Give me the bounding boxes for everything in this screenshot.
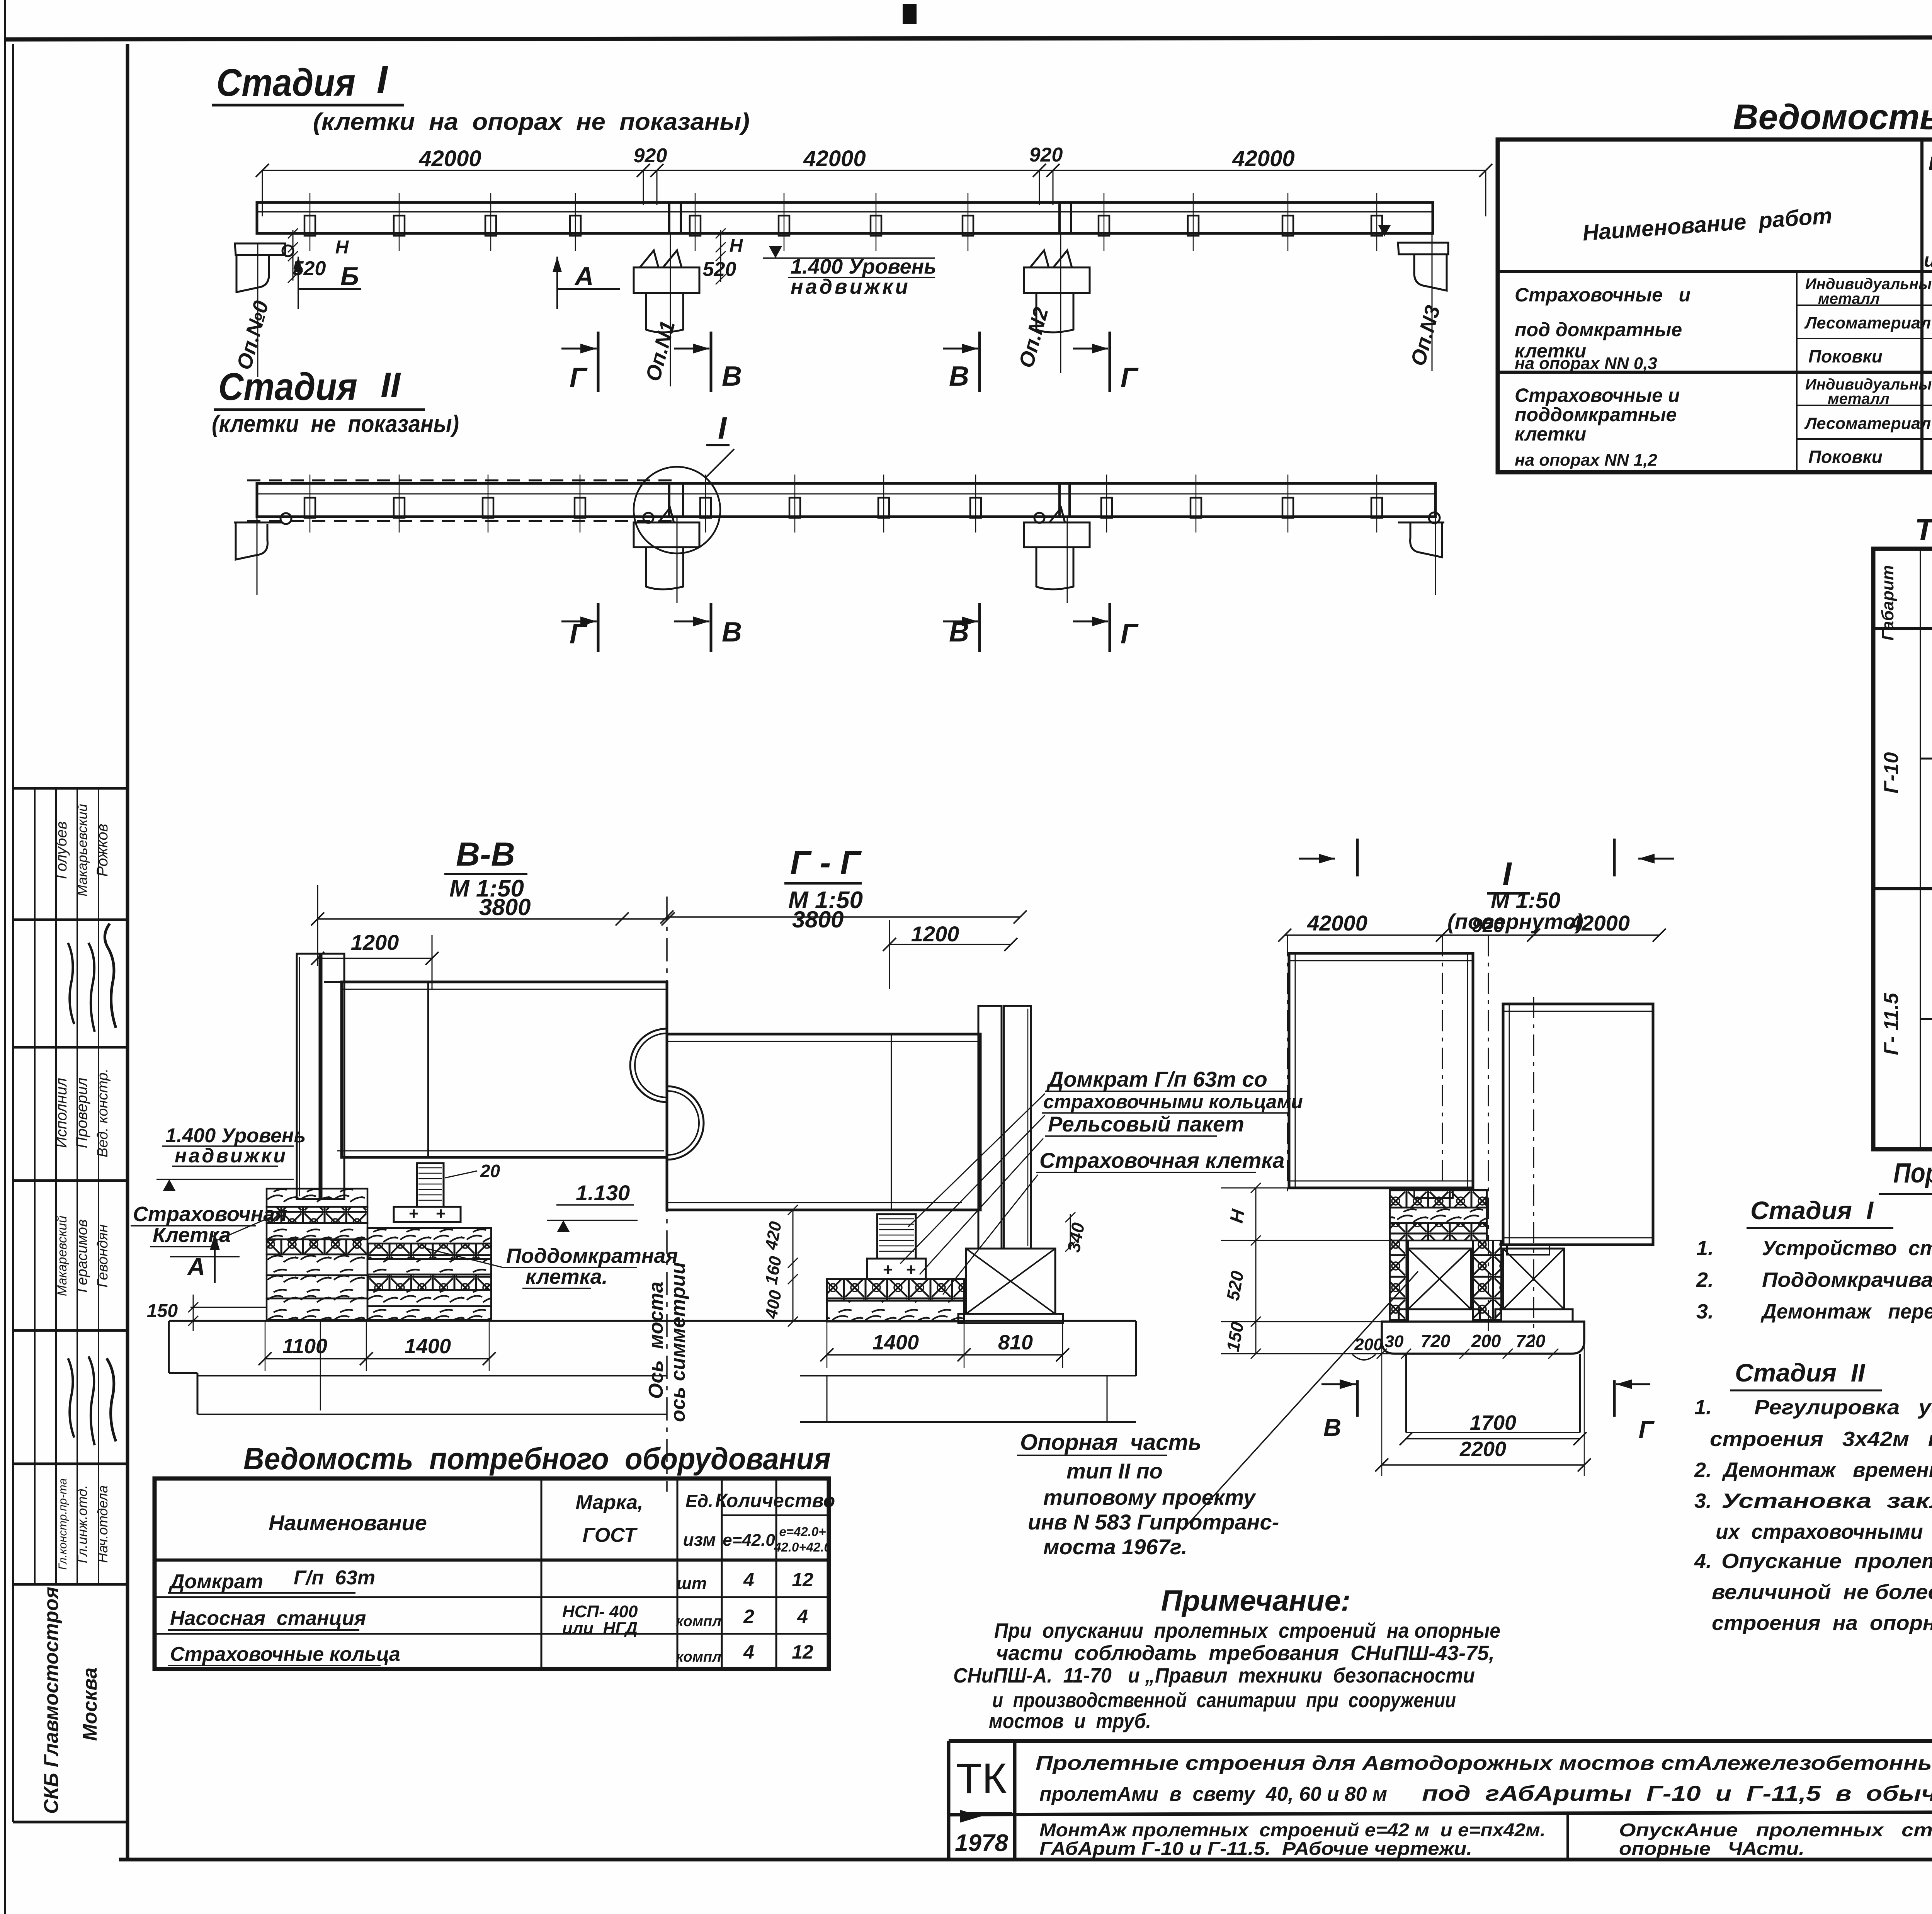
svg-text:строения 3х42м поддомкрачи: строения 3х42м поддомкрачиванием нА опор…: [1710, 1427, 1932, 1451]
svg-text:42000: 42000: [1569, 911, 1630, 935]
svg-text:Ведомость потребного оборудо: Ведомость потребного оборудования: [243, 1441, 831, 1476]
svg-text:42000: 42000: [1307, 911, 1367, 935]
svg-text:Ось моста: Ось моста: [645, 1282, 667, 1399]
svg-text:Таблица переменных Величин.: Таблица переменных Величин.: [1915, 512, 1932, 547]
svg-text:строения на опорные части.: строения на опорные части.: [1712, 1611, 1932, 1635]
svg-text:Б: Б: [340, 262, 359, 291]
svg-text:Г: Г: [1638, 1416, 1655, 1444]
svg-text:Марка,: Марка,: [576, 1491, 643, 1514]
svg-text:3800: 3800: [479, 894, 531, 920]
svg-text:920: 920: [1029, 144, 1063, 166]
section B-B dims: [318, 918, 668, 920]
svg-text:на опорах NN 1,2: на опорах NN 1,2: [1515, 451, 1657, 470]
svg-text:Голубев: Голубев: [53, 821, 70, 879]
svg-text:и производственной санитарии: и производственной санитарии при сооруже…: [992, 1689, 1456, 1712]
svg-text:Страховочные кольца: Страховочные кольца: [170, 1643, 400, 1666]
svg-text:Лесоматериал: Лесоматериал: [1804, 314, 1931, 332]
Stage I dimension line: [262, 170, 1486, 171]
svg-text:А: А: [574, 262, 594, 291]
svg-text:Ед,: Ед,: [1929, 153, 1932, 174]
svg-text:Гевондян: Гевондян: [95, 1224, 111, 1287]
svg-text:150: 150: [147, 1301, 178, 1321]
svg-text:(повернуто): (повернуто): [1447, 909, 1583, 934]
svg-text:Г/п 63т: Г/п 63т: [294, 1567, 375, 1589]
Stage II girder: [257, 483, 1435, 517]
section G-G pier columns: [978, 1006, 1002, 1249]
svg-text:страховочными кольцами: страховочными кольцами: [1043, 1091, 1303, 1113]
svg-text:II: II: [381, 366, 401, 405]
svg-text:шт: шт: [677, 1574, 707, 1593]
svg-text:ось симметрии: ось симметрии: [667, 1262, 689, 1422]
Stage I girder: [257, 202, 1433, 233]
svg-text:Устройство страховочных. клет: Устройство страховочных. клеток и клеток…: [1762, 1237, 1932, 1260]
svg-text:надвижки: надвижки: [791, 275, 910, 298]
svg-text:Опорная часть: Опорная часть: [1020, 1430, 1201, 1455]
svg-text:Насосная станция: Насосная станция: [170, 1607, 366, 1630]
svg-text:Поддомкратная: Поддомкратная: [506, 1244, 678, 1267]
svg-text:Страховочные и: Страховочные и: [1515, 284, 1690, 306]
svg-text:Домкрат: Домкрат: [168, 1570, 263, 1593]
svg-text:Лесоматериал: Лесоматериал: [1804, 414, 1931, 433]
svg-text:Количество: Количество: [715, 1490, 835, 1511]
svg-text:Опускание пролетного строени: Опускание пролетного строения e=42 м зал…: [1721, 1550, 1932, 1573]
svg-text:20: 20: [480, 1161, 500, 1181]
svg-text:Г-10: Г-10: [1880, 752, 1903, 793]
svg-text:e=42.0+: e=42.0+: [779, 1524, 826, 1539]
svg-text:Нач.отдела: Нач.отдела: [95, 1485, 111, 1563]
svg-text:величиной не более 15см до: величиной не более 15см до установки про…: [1712, 1581, 1932, 1604]
svg-text:Г- 11.5: Г- 11.5: [1880, 992, 1903, 1055]
svg-text:Пролетные строения для Автодор: Пролетные строения для Автодорожных мост…: [1036, 1752, 1932, 1774]
axis lines: [666, 897, 668, 1492]
svg-text:1200: 1200: [911, 922, 959, 946]
section G-G footing: [1135, 1321, 1137, 1376]
svg-text:+: +: [883, 1260, 893, 1279]
svg-text:ГАбАрит Г-10 и Г-11.5. РАбочи: ГАбАрит Г-10 и Г-11.5. РАбочие чертежи.: [1039, 1839, 1472, 1859]
manhole semicircle right: [667, 1086, 704, 1160]
svg-text:Герасимов: Герасимов: [74, 1219, 90, 1293]
svg-text:920: 920: [634, 145, 667, 167]
manhole semicircle left: [630, 1029, 667, 1102]
svg-text:Поковки: Поковки: [1808, 346, 1883, 366]
svg-text:2: 2: [743, 1606, 754, 1627]
svg-text:2.: 2.: [1694, 1458, 1712, 1482]
svg-text:типовому проекту: типовому проекту: [1043, 1485, 1257, 1509]
svg-text:Москва: Москва: [79, 1667, 101, 1741]
section I bottom dims: [1406, 1438, 1580, 1439]
svg-text:Г: Г: [1121, 362, 1139, 393]
section I bottom marks: [1356, 1380, 1359, 1417]
svg-text:Стадия II: Стадия II: [1735, 1358, 1866, 1387]
svg-text:Вед. констр.: Вед. констр.: [95, 1068, 111, 1157]
svg-text:Страховочная: Страховочная: [133, 1203, 287, 1226]
svg-text:Ведомость объемов работ.: Ведомость объемов работ.: [1733, 97, 1932, 137]
svg-text:Г: Г: [1121, 619, 1139, 650]
svg-text:720: 720: [1516, 1331, 1546, 1351]
svg-text:Исполнил: Исполнил: [53, 1078, 70, 1148]
section I dims: [1285, 934, 1659, 936]
svg-text:Стадия: Стадия: [216, 61, 355, 104]
svg-text:мостов и труб.: мостов и труб.: [989, 1710, 1151, 1733]
svg-text:3.: 3.: [1694, 1489, 1712, 1512]
svg-text:3800: 3800: [792, 907, 844, 932]
section B-B jack: [394, 1207, 461, 1222]
table 1 grid: [1498, 140, 1932, 472]
svg-text:В: В: [949, 617, 969, 648]
svg-text:920: 920: [1472, 915, 1504, 936]
svg-text:В: В: [722, 617, 742, 648]
svg-text:Поковки: Поковки: [1808, 447, 1883, 467]
svg-text:1100: 1100: [282, 1335, 327, 1358]
svg-text:1400: 1400: [405, 1335, 451, 1358]
svg-text:1400: 1400: [872, 1331, 919, 1354]
svg-text:изм.: изм.: [1924, 249, 1932, 271]
Stage I section marks: [597, 332, 600, 392]
section G-G girder box: [667, 1034, 980, 1210]
svg-text:Рожков: Рожков: [94, 823, 111, 876]
section G-G bottom dims: [827, 1354, 1063, 1356]
svg-text:СКБ Главмостостроя: СКБ Главмостостроя: [40, 1587, 63, 1814]
svg-text:При опускании пролетных стр: При опускании пролетных строений на опор…: [994, 1619, 1500, 1642]
svg-text:НСП- 400: НСП- 400: [562, 1602, 638, 1621]
svg-text:на опорах NN 0,3: на опорах NN 0,3: [1515, 354, 1657, 373]
svg-text:тип II по: тип II по: [1066, 1459, 1163, 1483]
svg-text:1.130: 1.130: [576, 1181, 630, 1205]
svg-text:В: В: [722, 361, 742, 392]
svg-text:СНиПШ-А. 11-70 и „Правил т: СНиПШ-А. 11-70 и „Правил техники безопас…: [953, 1664, 1475, 1687]
svg-text:(клетки не показаны): (клетки не показаны): [212, 411, 459, 437]
svg-text:под домкратные: под домкратные: [1515, 319, 1682, 340]
svg-text:1.400 Уровень: 1.400 Уровень: [165, 1125, 306, 1147]
svg-text:Н: Н: [730, 236, 743, 256]
svg-text:ОпускАние пролетных строен: ОпускАние пролетных строений нА: [1619, 1820, 1932, 1841]
detail circle I: [634, 467, 720, 553]
svg-text:1700: 1700: [1470, 1411, 1516, 1434]
svg-text:под гАбАриты Г-10 и Г-11,5: под гАбАриты Г-10 и Г-11,5 в обычном и с…: [1422, 1781, 1932, 1805]
svg-text:1.400 Уровень: 1.400 Уровень: [791, 255, 936, 278]
svg-text:Демонтаж временных стыков.: Демонтаж временных стыков.: [1722, 1458, 1932, 1482]
section B-B footing: [169, 1320, 1136, 1322]
section G-G crib under jack: [827, 1279, 964, 1301]
svg-text:Поддомкрачивание пролетного: Поддомкрачивание пролетного строения 3 х…: [1762, 1268, 1932, 1291]
svg-text:Ед.: Ед.: [685, 1491, 713, 1511]
svg-text:Домкрат Г/п 63т со: Домкрат Г/п 63т со: [1046, 1067, 1267, 1091]
svg-text:Порядок производства РАбот: Порядок производства РАбот: [1893, 1158, 1932, 1189]
svg-text:их страховочными клетками.: их страховочными клетками.: [1716, 1520, 1932, 1543]
section I girders: [1289, 953, 1473, 1188]
svg-text:металл: металл: [1828, 390, 1889, 407]
svg-text:изм: изм: [683, 1529, 716, 1550]
svg-text:опорные ЧАсти.: опорные ЧАсти.: [1619, 1839, 1804, 1859]
section I H/520/150 dims: [1255, 1188, 1257, 1240]
svg-text:3.: 3.: [1696, 1300, 1714, 1323]
svg-text:30: 30: [1385, 1332, 1404, 1351]
svg-text:В-В: В-В: [456, 836, 515, 873]
svg-text:1978: 1978: [955, 1830, 1008, 1856]
Stage I piers: [235, 243, 285, 255]
svg-text:2200: 2200: [1459, 1438, 1506, 1461]
svg-text:12: 12: [792, 1569, 813, 1591]
section G-G 340 dim: [1070, 1214, 1071, 1248]
Stage II piers: [234, 522, 282, 560]
svg-text:4.: 4.: [1694, 1550, 1712, 1573]
section I centerlines: [1287, 935, 1288, 1194]
section I crib: [1390, 1190, 1487, 1208]
svg-text:части соблюдать требования: части соблюдать требования СНиПШ-43-75,: [996, 1642, 1495, 1665]
Stage II section marks: [597, 603, 600, 652]
svg-text:42000: 42000: [1232, 146, 1294, 171]
svg-text:Страховочная клетка: Страховочная клетка: [1039, 1148, 1285, 1172]
svg-text:Демонтаж перекаточных устр: Демонтаж перекаточных устройств.: [1760, 1300, 1932, 1323]
svg-text:4: 4: [797, 1606, 808, 1627]
section B-B girder box: [342, 982, 667, 1157]
svg-text:720: 720: [1421, 1331, 1451, 1351]
svg-text:Макарьевский: Макарьевский: [74, 804, 90, 896]
svg-text:I: I: [377, 58, 388, 101]
svg-text:ТК: ТК: [956, 1755, 1007, 1802]
svg-text:Г: Г: [570, 362, 588, 393]
section I top marks: [1299, 858, 1335, 860]
svg-text:Гл.инж.отд.: Гл.инж.отд.: [74, 1485, 90, 1563]
svg-text:42000: 42000: [803, 146, 866, 171]
svg-text:В: В: [949, 361, 969, 392]
svg-text:Стадия: Стадия: [218, 365, 357, 408]
svg-text:компл: компл: [676, 1649, 721, 1665]
svg-text:надвижки: надвижки: [175, 1145, 287, 1167]
svg-text:42000: 42000: [418, 146, 481, 171]
svg-text:Макаревский: Макаревский: [55, 1216, 70, 1296]
svg-text:Проверил: Проверил: [73, 1078, 90, 1148]
svg-text:200: 200: [1471, 1331, 1501, 1351]
section I vertical cribs + bearing blocks: [1390, 1240, 1408, 1322]
svg-text:Наименование: Наименование: [269, 1511, 427, 1535]
svg-text:Страховочные и: Страховочные и: [1515, 385, 1680, 406]
section B-B pier columns: [297, 954, 320, 1199]
frame: [4, 0, 6, 1914]
svg-text:ГОСТ: ГОСТ: [582, 1524, 638, 1547]
svg-text:1.: 1.: [1694, 1396, 1712, 1419]
svg-text:810: 810: [998, 1331, 1033, 1354]
section G-G 400 160 420 dims: [793, 1210, 794, 1322]
svg-text:2.: 2.: [1696, 1268, 1714, 1291]
svg-text:инв N 583 Гипротранс-: инв N 583 Гипротранс-: [1028, 1510, 1279, 1534]
svg-text:520: 520: [703, 258, 736, 281]
svg-text:металл: металл: [1818, 290, 1880, 307]
svg-text:Установка заклиненных опорны: Установка заклиненных опорных частей и о…: [1721, 1489, 1932, 1512]
svg-text:клетки: клетки: [1515, 423, 1586, 445]
svg-text:1.: 1.: [1696, 1237, 1714, 1260]
section G-G jack: [867, 1259, 926, 1279]
svg-text:Регулировка усилий во врем: Регулировка усилий во временных стыках п…: [1754, 1396, 1932, 1419]
svg-text:Клетка: Клетка: [153, 1223, 231, 1247]
svg-text:I: I: [718, 411, 727, 445]
svg-text:4: 4: [743, 1569, 754, 1591]
section B-B cribs: [267, 1189, 367, 1207]
title block: [949, 1739, 1932, 1743]
section I pier cap and shaft: [1382, 1322, 1584, 1354]
svg-text:Г - Г: Г - Г: [790, 844, 862, 881]
section G-G dims: [667, 916, 1020, 918]
svg-text:Примечание:: Примечание:: [1161, 1584, 1351, 1617]
section B-B bottom dims: [265, 1358, 489, 1359]
left stamp column: [13, 787, 128, 790]
svg-text:МонтАж пролетных строений e=4: МонтАж пролетных строений e=42 м и e=пх4…: [1039, 1820, 1546, 1841]
svg-text:200: 200: [1354, 1335, 1383, 1354]
svg-text:12: 12: [792, 1641, 813, 1663]
svg-text:42.0+42.0: 42.0+42.0: [774, 1540, 831, 1554]
svg-text:компл: компл: [676, 1613, 721, 1630]
svg-text:В: В: [1323, 1414, 1341, 1441]
svg-text:1200: 1200: [351, 930, 399, 954]
svg-text:Гл.констр.пр-та: Гл.констр.пр-та: [56, 1478, 69, 1570]
svg-text:пролетАми в свету 40, 60 и: пролетАми в свету 40, 60 и 80 м: [1039, 1783, 1387, 1805]
svg-text:Н: Н: [335, 237, 349, 258]
svg-text:поддомкратные: поддомкратные: [1515, 404, 1677, 425]
svg-text:Стадия I: Стадия I: [1750, 1196, 1874, 1225]
section G-G bearing block: [966, 1249, 1055, 1314]
svg-text:моста 1967г.: моста 1967г.: [1043, 1535, 1187, 1559]
table 2 grid: [1873, 549, 1932, 1149]
section I girder pads: [1414, 1188, 1453, 1198]
svg-text:клетка.: клетка.: [526, 1265, 608, 1288]
svg-text:(клетки на опорах не показ: (клетки на опорах не показаны): [313, 109, 750, 135]
svg-text:Габарит: Габарит: [1878, 565, 1897, 641]
svg-text:e=42.0: e=42.0: [723, 1531, 775, 1550]
svg-text:или НГД: или НГД: [562, 1619, 638, 1638]
svg-text:4: 4: [743, 1641, 754, 1663]
svg-text:+: +: [906, 1260, 916, 1279]
svg-text:I: I: [1502, 856, 1512, 892]
Stage I level/dim labels: [293, 230, 294, 281]
svg-text:Рельсовый пакет: Рельсовый пакет: [1048, 1112, 1244, 1136]
svg-text:Г: Г: [570, 619, 588, 650]
